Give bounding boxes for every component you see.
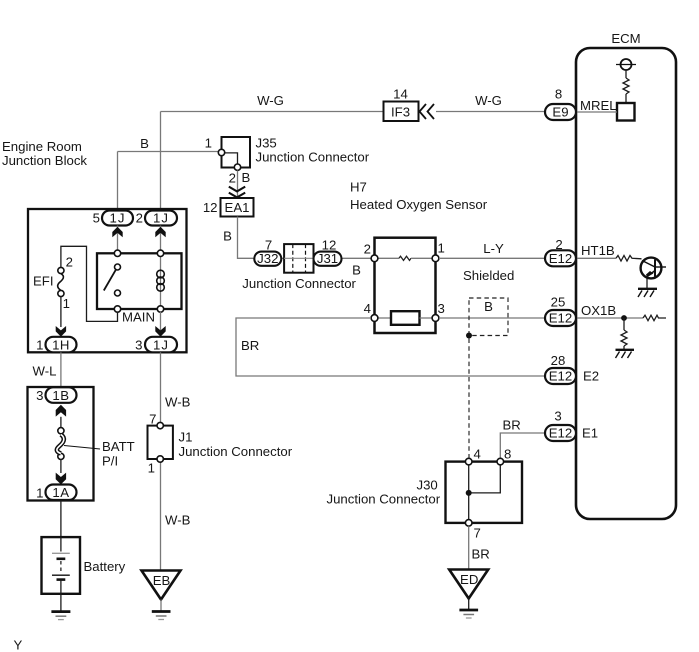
wire to ground (646, 278, 648, 288)
junction connector busbar box (284, 244, 313, 273)
svg-text:5: 5 (93, 211, 100, 226)
engine room junction block box (28, 209, 187, 352)
wire into relay (left) (117, 226, 119, 254)
svg-text:MAIN: MAIN (122, 310, 155, 325)
svg-text:B: B (484, 299, 493, 314)
svg-text:Junction Block: Junction Block (2, 153, 87, 168)
pin circle J1-1 (157, 456, 163, 462)
ground chevrons EA1 (229, 187, 245, 192)
pin circle J35-1 (218, 149, 224, 155)
relay switch contact lower (115, 290, 121, 296)
pin circle J30-7 (465, 520, 472, 527)
HT1B internal: wire (576, 257, 616, 259)
wire (625, 70, 627, 78)
connector E9 pin 8 (545, 104, 576, 120)
svg-text:E12: E12 (549, 369, 572, 384)
svg-text:OX1B: OX1B (581, 303, 616, 318)
svg-text:1: 1 (148, 461, 155, 476)
wire inside J35 (222, 153, 238, 167)
svg-text:Shielded: Shielded (463, 268, 514, 283)
svg-text:3: 3 (36, 388, 43, 403)
pin circle J1-7 (157, 422, 163, 428)
svg-text:Heated Oxygen Sensor: Heated Oxygen Sensor (350, 197, 488, 212)
svg-text:ECM: ECM (611, 31, 640, 46)
EFI relay box (97, 253, 182, 309)
wire into relay (right) (160, 226, 162, 254)
wire ED to ground (468, 599, 470, 610)
wire W-B 1J(3) to EB (160, 352, 162, 570)
wire EFI to 1H (60, 297, 62, 327)
svg-text:3: 3 (438, 301, 445, 316)
svg-text:J32: J32 (257, 251, 278, 266)
svg-text:J1: J1 (179, 430, 193, 445)
transistor Q (HT1B driver) (641, 258, 662, 279)
OX1B internal: wire (576, 317, 643, 319)
svg-text:J30: J30 (417, 478, 438, 493)
terminal arrow down (1J3) (155, 326, 165, 337)
terminal arrow up (1B) (56, 405, 66, 417)
svg-text:28: 28 (551, 353, 566, 368)
connector E12 pin 3 E1 (545, 425, 576, 441)
svg-text:3: 3 (135, 338, 142, 353)
svg-text:BR: BR (503, 418, 521, 433)
junction connector J30 (446, 462, 523, 523)
svg-text:MREL: MREL (580, 98, 617, 113)
svg-text:7: 7 (149, 412, 156, 427)
svg-text:E12: E12 (549, 426, 572, 441)
wire W-L 1H to 1B (60, 352, 62, 387)
svg-text:W-B: W-B (165, 513, 191, 528)
terminal arrow down (1H) (56, 326, 66, 337)
junction connector J1 (148, 426, 173, 459)
fusible link BATT P/I (58, 428, 64, 434)
MREL internal: supply circle (621, 59, 632, 70)
svg-text:1H: 1H (52, 337, 70, 352)
connector 1A pin 1 (46, 485, 77, 501)
wire L-Y sensor pin1 to HT1B (439, 257, 545, 259)
svg-text:Junction Connector: Junction Connector (256, 150, 370, 165)
connector 1J pin 5 (102, 211, 133, 226)
svg-text:EB: EB (153, 573, 171, 588)
svg-text:BR: BR (472, 547, 490, 562)
relay switch blade (104, 270, 116, 291)
svg-text:1A: 1A (52, 485, 69, 500)
wire coil to 1J(3) (160, 312, 162, 337)
connector J31 pin 12 (314, 252, 342, 266)
pin circle J30-4 (465, 458, 472, 465)
wire battery to ground (60, 594, 62, 612)
svg-text:E2: E2 (583, 369, 599, 384)
svg-text:B: B (223, 229, 232, 244)
svg-text:25: 25 (551, 295, 566, 310)
svg-text:J35: J35 (256, 136, 277, 151)
svg-text:2: 2 (364, 242, 371, 257)
svg-text:W-B: W-B (165, 395, 191, 410)
wire EA1 to J32 (238, 217, 255, 259)
svg-text:1B: 1B (52, 388, 69, 403)
battery box (42, 537, 81, 594)
svg-text:BR: BR (241, 338, 259, 353)
svg-text:Junction Connector: Junction Connector (242, 276, 356, 291)
svg-text:2: 2 (136, 211, 143, 226)
svg-text:1J: 1J (153, 211, 169, 226)
junction connector J35 (222, 137, 251, 168)
wire W-G right segment (436, 111, 545, 113)
wire BR sensor pin4 loop to E2 (236, 318, 545, 376)
svg-text:2: 2 (555, 237, 562, 252)
MREL driver square (617, 103, 635, 121)
svg-text:P/I: P/I (102, 454, 118, 469)
sensor element rectangle inside H7 (378, 317, 391, 319)
svg-text:7: 7 (265, 237, 272, 252)
svg-text:W-L: W-L (33, 364, 57, 379)
relay coil (157, 270, 165, 278)
wire 1A to battery (60, 500, 62, 537)
svg-text:8: 8 (504, 447, 511, 462)
connector 1J pin 3 (145, 337, 177, 353)
svg-text:W-G: W-G (475, 93, 502, 108)
svg-text:1: 1 (205, 136, 212, 151)
junction dot shield drain (466, 333, 472, 339)
relay pin circles (114, 250, 120, 256)
svg-text:E9: E9 (552, 105, 568, 120)
wire inside J30 dot to pin8 (469, 462, 501, 493)
terminal arrow down (1A) (56, 473, 66, 485)
svg-text:J31: J31 (317, 251, 338, 266)
relay coil wire (160, 253, 162, 309)
pin circle H7-3 (432, 315, 439, 322)
connector E12 pin 2 HT1B (545, 250, 576, 266)
ground (EB) (152, 610, 171, 613)
svg-text:4: 4 (364, 301, 371, 316)
heated oxygen sensor H7 body (375, 238, 436, 333)
svg-text:W-G: W-G (257, 93, 284, 108)
svg-text:EFI: EFI (33, 274, 54, 289)
ground (OX1B) (616, 349, 635, 351)
connector 1H pin 1 (46, 337, 77, 353)
svg-text:1J: 1J (153, 337, 169, 352)
shield drain dashed wire to J30 (468, 339, 470, 459)
svg-text:H7: H7 (350, 180, 367, 195)
connector 1J pin 2 (145, 211, 177, 226)
junction dot J30 (466, 490, 472, 496)
svg-text:2: 2 (229, 171, 236, 186)
svg-text:1J: 1J (110, 211, 126, 226)
leader line BATT P/I (64, 446, 100, 450)
svg-text:B: B (140, 136, 149, 151)
svg-text:7: 7 (474, 526, 481, 541)
svg-text:3: 3 (554, 409, 561, 424)
resistor MREL (623, 78, 629, 94)
ECM box (576, 48, 676, 519)
pin circle H7-4 (371, 315, 378, 322)
svg-text:Engine Room: Engine Room (2, 139, 82, 154)
wire W-G left segment (161, 111, 384, 113)
shield dashed box (469, 298, 508, 336)
terminal arrow up (1J5) (112, 227, 122, 238)
svg-text:Battery: Battery (84, 559, 126, 574)
wire (625, 94, 627, 103)
svg-text:ED: ED (460, 572, 478, 587)
wire inside J30 pin4 to dot (468, 462, 470, 493)
wire fuse to arrow (60, 460, 62, 474)
fuse EFI (58, 267, 64, 273)
battery cells (60, 537, 62, 551)
pin circle H7-2 (371, 255, 378, 262)
wire vertical to 1J(5) (117, 152, 119, 212)
ground (HT1B) (638, 288, 657, 290)
connector IF3 pin 14 (384, 102, 419, 122)
svg-text:Junction Connector: Junction Connector (327, 492, 441, 507)
svg-text:BATT: BATT (102, 439, 135, 454)
svg-text:4: 4 (474, 447, 481, 462)
wire through junction connector to sensor pin2 (281, 257, 375, 259)
wire BR J30 pin7 to ED (468, 526, 470, 569)
svg-text:L-Y: L-Y (483, 241, 504, 256)
svg-text:B: B (242, 170, 251, 185)
resistor OX1B horizontal (643, 315, 666, 321)
svg-text:1: 1 (63, 296, 70, 311)
svg-text:1: 1 (36, 486, 43, 501)
ground (battery) (51, 610, 70, 613)
connector chevrons IF3 (420, 104, 427, 119)
svg-text:1: 1 (438, 241, 445, 256)
fusible link block box (28, 387, 94, 501)
connector J32 pin 7 (254, 252, 281, 266)
ground (ED) (459, 609, 478, 612)
svg-text:12: 12 (203, 200, 218, 215)
connector E12 pin 28 E2 (545, 368, 576, 384)
svg-text:12: 12 (322, 237, 337, 252)
resistor HT1B (616, 256, 642, 262)
wire sensor pin3 to OX1B (439, 317, 545, 319)
pin circle H7-1 (432, 255, 439, 262)
wire E9 to square (576, 111, 617, 113)
relay switch contact upper (115, 264, 121, 270)
ground point EA1 pin 12 (221, 198, 254, 217)
svg-text:14: 14 (393, 87, 408, 102)
wire inside J30 dot to pin7 (468, 493, 470, 523)
svg-text:Y: Y (14, 638, 23, 652)
wire arrow to fuse (60, 417, 62, 428)
wire down (623, 318, 625, 330)
wire vertical to 1J(2) (160, 112, 162, 212)
svg-text:Junction Connector: Junction Connector (179, 444, 293, 459)
svg-text:E12: E12 (549, 251, 572, 266)
connector E12 pin 25 OX1B (545, 310, 576, 326)
terminal arrow up (1J2) (155, 227, 165, 238)
svg-text:EA1: EA1 (225, 200, 250, 215)
svg-text:8: 8 (555, 87, 562, 102)
pin circle J30-8 (497, 458, 504, 465)
ground triangle ED (449, 570, 488, 599)
pin circle J35 bottom (234, 164, 240, 170)
wire J35 to EA1 (237, 170, 239, 198)
wire (623, 346, 625, 350)
svg-text:1: 1 (36, 338, 43, 353)
svg-text:HT1B: HT1B (581, 243, 615, 258)
wire BR E1 to J30 pin 8 (500, 433, 544, 458)
connector 1B pin 3 (46, 387, 77, 403)
junction dot (621, 315, 627, 321)
resistor OX1B vertical (621, 330, 627, 346)
svg-text:B: B (352, 263, 361, 278)
wire EB to ground (160, 600, 162, 612)
heater resistor inside H7 (378, 257, 399, 259)
svg-text:E12: E12 (549, 311, 572, 326)
svg-text:2: 2 (66, 255, 73, 270)
svg-text:E1: E1 (582, 426, 598, 441)
ground triangle EB (142, 571, 181, 600)
wire relay switch to EFI fuse loop (61, 246, 118, 321)
svg-text:IF3: IF3 (391, 105, 410, 120)
wire B horizontal to J35 (118, 151, 222, 153)
